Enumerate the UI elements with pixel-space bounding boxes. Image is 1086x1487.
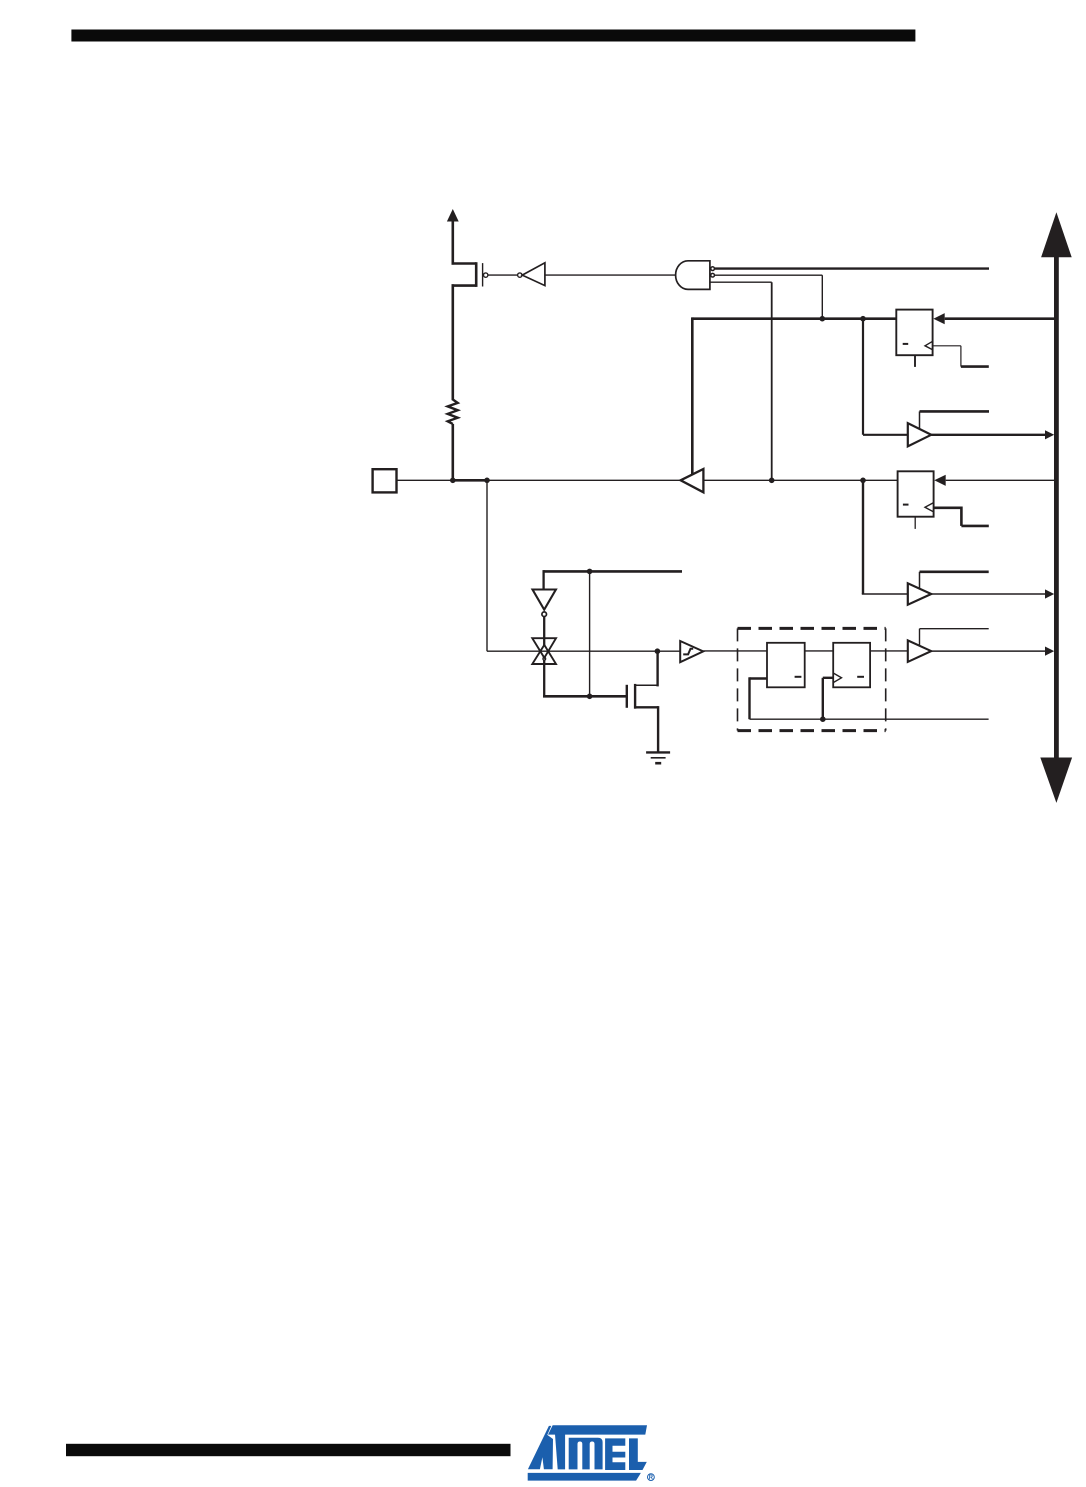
inverter U9 sleep	[533, 590, 556, 646]
node gate junction	[587, 694, 593, 700]
node junction on DD line	[820, 316, 826, 322]
synchronizer dashed box	[738, 628, 886, 730]
wire pull-up drain to resistor	[451, 284, 454, 400]
node junction driver input to read buffer	[860, 478, 866, 484]
node pull-up junction	[450, 478, 456, 484]
wire DDxn clock WDx	[933, 346, 989, 367]
node clock rail junction	[820, 716, 826, 722]
node pin tap junction	[484, 478, 490, 484]
wire DD output net	[692, 317, 896, 474]
wire inverter to PMOS gate	[488, 274, 518, 276]
node schmitt input junction	[655, 648, 661, 654]
latch L2	[823, 643, 870, 719]
AND gate U2 (mirrored, inputs on right)	[676, 261, 715, 290]
wire schmitt output into synchronizer	[703, 650, 767, 652]
output driver U3	[681, 469, 704, 492]
wire pin line	[397, 479, 681, 481]
wire latch1 to latch2	[805, 650, 834, 652]
wire PORTxn clock WPx	[934, 507, 989, 526]
wire RDx enable stub	[920, 411, 990, 429]
buffer U6 read pin	[908, 640, 931, 662]
schmitt trigger U7	[680, 641, 703, 662]
flip-flop PORTxn	[898, 471, 934, 529]
wire clk I/O rail	[750, 718, 989, 720]
Atmel logo	[528, 1425, 655, 1480]
ground	[646, 752, 670, 763]
wire PORTxn D input from bus	[934, 475, 1054, 486]
wire PUD stub	[715, 267, 989, 269]
wire synchronizer output	[870, 650, 908, 652]
wire driver input line	[703, 479, 897, 481]
wire pin to analog switch	[487, 480, 680, 651]
inverter U1	[518, 263, 545, 286]
analog switch U8	[532, 638, 556, 664]
power rail VCC arrow	[447, 209, 459, 265]
transistor Q1 pull-up PMOS	[452, 262, 488, 287]
node junction on port line	[769, 478, 775, 484]
wire AND mid input from DD line	[715, 275, 823, 319]
node junction DD net to read buffer	[860, 316, 866, 322]
node sleep junction	[587, 569, 593, 575]
wire DDxn D input from bus	[933, 313, 1054, 324]
wire AND bottom input from port line	[710, 282, 772, 480]
transistor Q2 clamp NMOS	[627, 651, 658, 752]
pin pad PXn	[373, 469, 397, 492]
wire U5 output to bus	[931, 589, 1054, 598]
flip-flop DDxn	[896, 310, 932, 367]
wire AND output to inverter input	[545, 274, 676, 276]
wire RPx enable stub	[920, 629, 989, 647]
buffer U4 read DDxn	[908, 423, 931, 446]
latch L1	[750, 643, 805, 719]
buffer U5 read PORTxn	[908, 583, 931, 604]
wire RRx enable stub	[920, 572, 989, 589]
wire read PORTxn net	[862, 480, 908, 594]
wire read DDxn net	[863, 319, 908, 435]
data bus	[1040, 212, 1072, 803]
resistor R1 pull-up	[448, 400, 458, 481]
wire U6 output to bus	[931, 647, 1054, 656]
wire switch to NMOS gate	[543, 660, 627, 696]
wire sleep net	[544, 570, 682, 696]
wire U4 output to bus	[931, 430, 1054, 439]
